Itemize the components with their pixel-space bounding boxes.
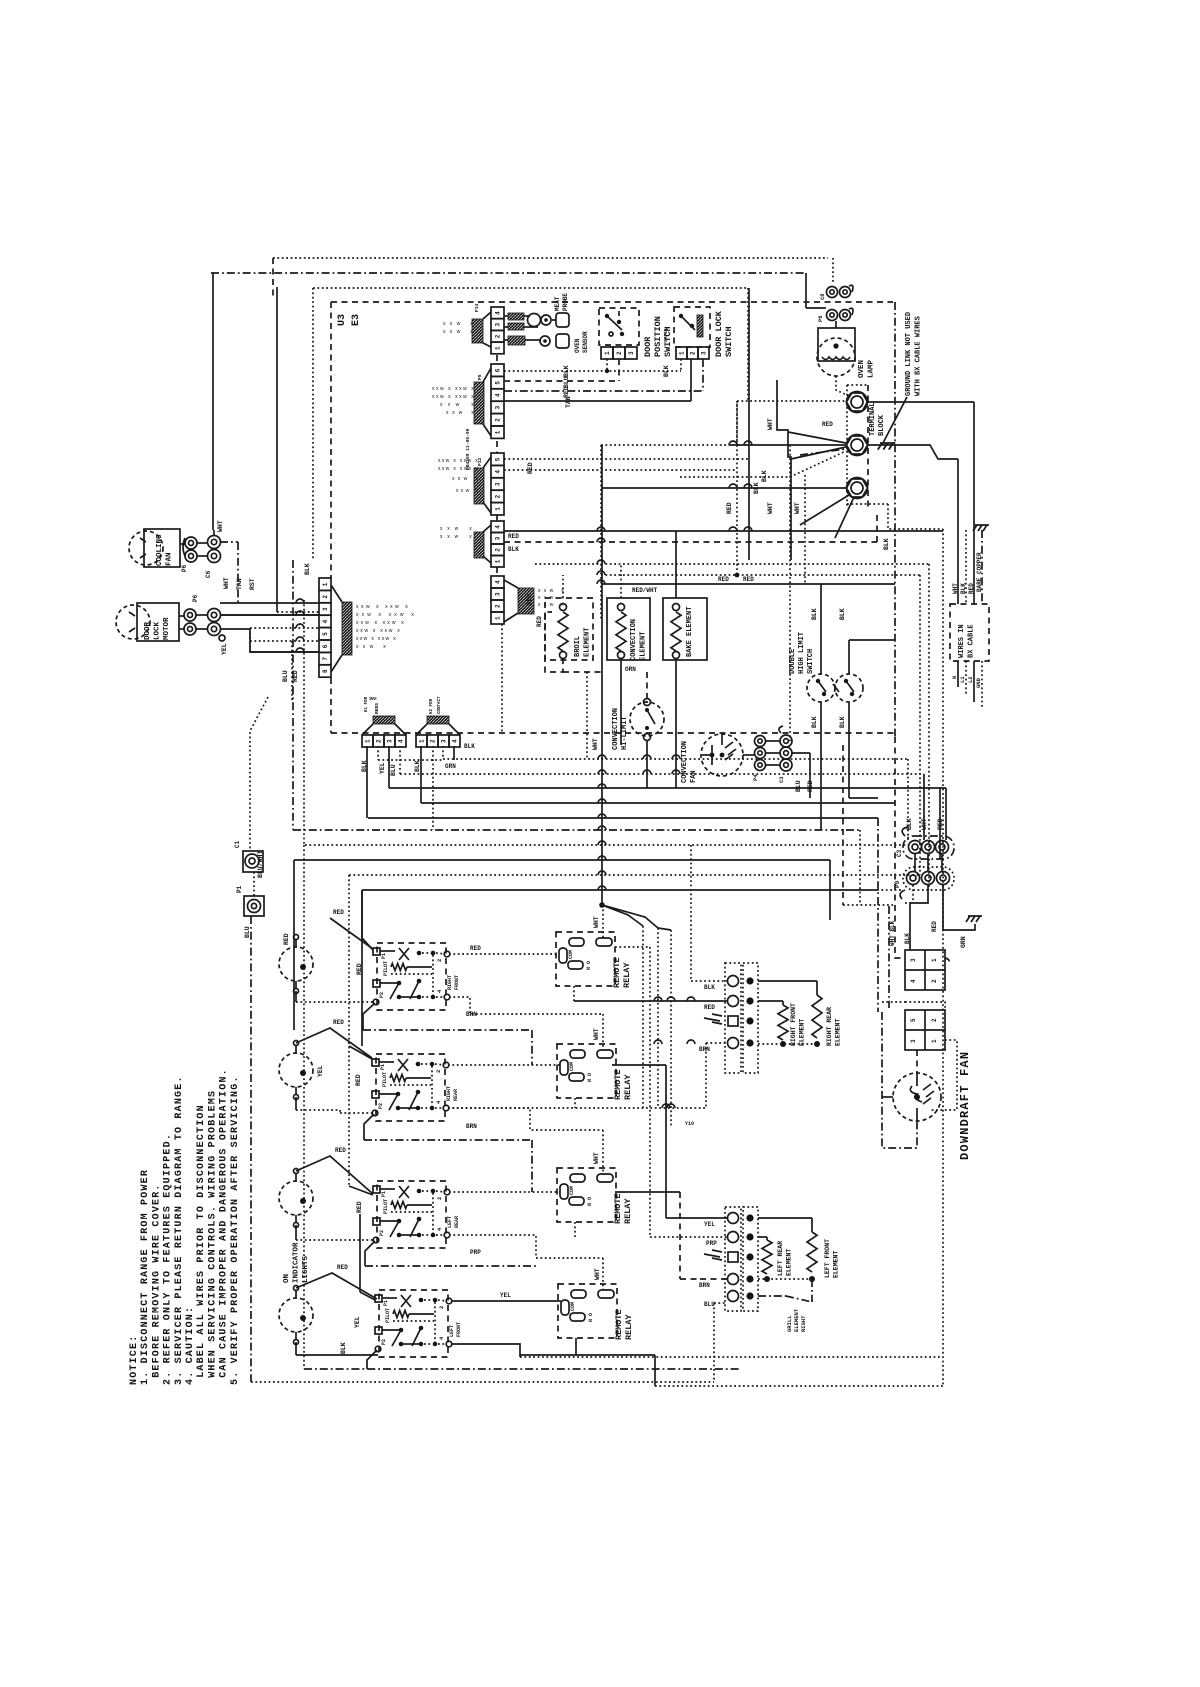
junction RED <box>735 573 740 578</box>
wire bus y860 <box>294 859 830 861</box>
wire GND <box>981 661 983 708</box>
edge stub 4 <box>496 567 498 576</box>
bake element <box>663 598 707 660</box>
wire x304 dotted <box>303 600 305 845</box>
svg-text:2: 2 <box>495 604 502 608</box>
meat probe symbols <box>504 293 569 330</box>
wire relay1 bottom <box>573 986 575 1001</box>
wire screw1 to RED <box>866 401 974 403</box>
svg-text:RED: RED <box>508 533 519 540</box>
ground bare copper <box>973 525 989 531</box>
wire to hi-limit <box>646 672 648 698</box>
wire N <box>957 661 959 687</box>
switch left rear <box>373 1181 450 1248</box>
svg-text:4: 4 <box>322 619 329 623</box>
svg-text:P1: P1 <box>380 1064 386 1070</box>
svg-text:1: 1 <box>495 616 502 620</box>
svg-text:1: 1 <box>495 507 502 511</box>
svg-text:RST: RST <box>249 578 256 590</box>
wire dotted x601 drop <box>600 445 602 620</box>
svg-text:RED: RED <box>726 502 733 514</box>
wire P9-3 to ground <box>943 885 975 930</box>
svg-text:RIGHT: RIGHT <box>446 1086 452 1101</box>
svg-text:3: 3 <box>910 1039 917 1043</box>
svg-text:BLK: BLK <box>960 583 967 594</box>
svg-text:WHT: WHT <box>593 1028 600 1040</box>
svg-text:GROUND LINK NOT USEDWITH BX CA: GROUND LINK NOT USEDWITH BX CABLE WIRES <box>905 312 923 396</box>
remote relay 4 <box>558 1284 617 1338</box>
terminal bar pair left-lower <box>725 1207 758 1311</box>
svg-text:1: 1 <box>495 346 502 350</box>
wire x304 down to rail <box>303 845 305 1369</box>
wire junction to relay1 <box>602 905 604 938</box>
svg-text:RED: RED <box>333 909 344 916</box>
svg-text:BLK: BLK <box>761 470 768 482</box>
connector 4-pin downdraft <box>905 1010 945 1050</box>
svg-text:BLK: BLK <box>811 608 818 620</box>
door position switch pins <box>601 347 613 359</box>
svg-text:RIGHT: RIGHT <box>447 975 453 990</box>
right front element <box>758 1001 806 1047</box>
wire bus y890 <box>362 889 877 891</box>
svg-text:WHT: WHT <box>952 583 959 594</box>
wire x805 dotted <box>804 475 806 584</box>
wire drop to P8 <box>805 273 807 308</box>
svg-text:RED: RED <box>337 1264 348 1271</box>
wire drop x860 <box>859 830 861 905</box>
wire dashdot y1266 <box>365 1265 536 1267</box>
wire conn to fan <box>916 1050 918 1073</box>
edge stub 2 <box>496 441 498 453</box>
svg-text:xxw x xxw x: xxw x xxw x <box>438 466 478 472</box>
svg-text:BLK: BLK <box>753 482 760 494</box>
svg-text:BLK: BLK <box>414 760 421 772</box>
wire bus y830 <box>293 829 860 831</box>
wire bus y575 <box>601 574 920 576</box>
wire relay1 right <box>615 946 650 948</box>
svg-text:LEFT: LEFT <box>447 1216 453 1228</box>
connector strip P8 board <box>474 521 504 567</box>
svg-text:RED: RED <box>527 462 534 474</box>
svg-text:6: 6 <box>495 368 502 372</box>
svg-text:RED: RED <box>333 1019 344 1026</box>
svg-text:RED: RED <box>526 594 533 605</box>
svg-text:1: 1 <box>931 958 938 962</box>
svg-text:WHT: WHT <box>217 520 224 532</box>
wire downdraft right loop <box>931 1040 957 1110</box>
svg-text:BLK: BLK <box>883 538 890 550</box>
svg-text:COM: COM <box>568 950 574 959</box>
wire drop x843 <box>842 745 844 905</box>
inner dotted box <box>313 287 748 289</box>
svg-text:2: 2 <box>376 739 383 743</box>
svg-text:PILOT: PILOT <box>383 961 389 976</box>
wire x643 vertical <box>642 926 644 1108</box>
svg-text:RED: RED <box>536 616 543 627</box>
wire bus y759 <box>443 758 908 760</box>
svg-text:N O: N O <box>588 1313 594 1322</box>
remote relay 3 <box>557 1168 616 1222</box>
wire downdraft loop <box>882 1012 917 1148</box>
wire BLK to high limit 1 <box>820 584 822 674</box>
wire to C1 <box>250 697 268 851</box>
svg-text:DOWNDRAFT FAN: DOWNDRAFT FAN <box>958 1051 972 1160</box>
svg-text:xxw x xxw x: xxw x xxw x <box>356 620 404 626</box>
svg-text:P6: P6 <box>192 594 199 602</box>
wire pin5 dashdot <box>758 1295 786 1297</box>
svg-text:1: 1 <box>365 739 372 743</box>
svg-text:YEL: YEL <box>354 1316 361 1328</box>
svg-text:RED: RED <box>335 1147 346 1154</box>
svg-text:K2 FOR: K2 FOR <box>430 698 434 714</box>
wire screw2 to WHT <box>868 445 958 459</box>
wire x502 dotted <box>501 624 503 733</box>
wire x790 vertical <box>789 445 791 741</box>
svg-text:3: 3 <box>628 351 635 355</box>
svg-text:4: 4 <box>495 393 502 397</box>
connector P6 cooling fan <box>181 537 197 572</box>
wire WHT down to C6 <box>212 273 214 530</box>
wire to ground note <box>883 397 907 443</box>
svg-text:WHT: WHT <box>594 1268 601 1280</box>
svg-text:1: 1 <box>495 559 502 563</box>
svg-text:BLU/WHT: BLU/WHT <box>257 851 264 878</box>
wire drop to P9-1 <box>907 759 909 840</box>
double high limit switch <box>789 632 863 702</box>
svg-text:8: 8 <box>322 669 329 673</box>
wire bus y845 <box>305 844 908 846</box>
wires converging to screw2 <box>737 400 846 402</box>
wire into pin4 <box>706 1042 727 1044</box>
arrows into bar <box>704 1014 722 1024</box>
wire red diag 1 <box>330 918 373 949</box>
wire y1108 long <box>448 1107 706 1109</box>
connector C4 <box>778 726 792 783</box>
svg-text:5: 5 <box>495 457 502 461</box>
terminal block <box>847 385 889 508</box>
svg-text:C6: C6 <box>205 570 212 578</box>
wire into 4pin <box>895 905 905 958</box>
connector C3 <box>896 827 954 859</box>
wire bottoms lower pair <box>758 1278 812 1280</box>
svg-text:Y10: Y10 <box>685 1121 694 1127</box>
wire red diag 3 <box>296 1156 373 1194</box>
svg-text:BRN: BRN <box>466 1011 477 1018</box>
svg-text:6: 6 <box>322 644 329 648</box>
svg-text:P1: P1 <box>381 1191 387 1197</box>
svg-text:OVENLAMP: OVENLAMP <box>858 359 876 378</box>
wire x714 up to BLU pin <box>713 1303 715 1382</box>
remote relay 1 <box>556 932 615 986</box>
wire x691 into pin1 <box>690 845 692 981</box>
wires in bx cable box <box>950 604 989 661</box>
svg-text:4: 4 <box>452 739 459 743</box>
wire dashdot run <box>211 272 806 274</box>
svg-text:RED: RED <box>563 386 570 398</box>
svg-text:P6: P6 <box>181 564 188 572</box>
wire WHT into box <box>957 459 959 604</box>
connector 4-pin upper <box>905 950 945 990</box>
wire rail y1357 dotted <box>520 1356 943 1358</box>
svg-text:2: 2 <box>495 418 502 422</box>
wire vert x277 <box>276 287 278 612</box>
wire bus y803 <box>421 802 895 804</box>
svg-text:C1: C1 <box>234 840 241 848</box>
svg-text:BLK: BLK <box>663 365 670 377</box>
wire x293 dashdot <box>292 560 294 830</box>
convection fan <box>681 734 743 783</box>
wire dashdot y1140 <box>364 1139 532 1141</box>
connector C6 cooling fan <box>205 520 224 578</box>
svg-text:5: 5 <box>910 1018 917 1022</box>
wire dotted y459 <box>504 458 749 460</box>
door lock motor <box>116 603 179 641</box>
svg-text:P1: P1 <box>236 885 243 893</box>
wire x294 down <box>293 944 295 1030</box>
wire BLK into box <box>965 530 967 604</box>
wire RED into box <box>973 402 975 604</box>
svg-text:1: 1 <box>419 739 426 743</box>
svg-text:3: 3 <box>495 482 502 486</box>
svg-text:PRP: PRP <box>706 1240 717 1247</box>
wire bus y788 <box>389 787 946 789</box>
svg-text:LATCH: LATCH <box>663 328 669 342</box>
indicator light 2 <box>279 1041 313 1100</box>
switch right front <box>373 943 450 1010</box>
svg-text:2: 2 <box>435 1070 442 1073</box>
svg-text:BLK: BLK <box>340 1342 347 1354</box>
wire x929 <box>928 564 930 890</box>
svg-text:2: 2 <box>495 494 502 498</box>
connector C1 <box>234 840 264 878</box>
svg-text:CONTACT: CONTACT <box>438 696 442 714</box>
svg-text:BLK: BLK <box>904 933 911 944</box>
svg-text:3: 3 <box>495 323 502 327</box>
svg-text:WHT: WHT <box>593 1152 600 1164</box>
indicator light 4 <box>279 1286 313 1345</box>
svg-text:BLK: BLK <box>304 563 311 575</box>
svg-text:xxw x xxw x: xxw x xxw x <box>432 386 474 392</box>
machine control board dashed box <box>331 301 893 303</box>
wire x889 dashdot down <box>888 906 890 1008</box>
svg-text:L1: L1 <box>959 676 966 683</box>
connector P8 <box>817 308 853 322</box>
svg-text:2: 2 <box>495 548 502 552</box>
svg-text:PILOT: PILOT <box>383 1199 389 1214</box>
wire diag fan a <box>602 905 643 926</box>
svg-text:N O: N O <box>586 961 592 970</box>
svg-text:YEL: YEL <box>379 762 386 774</box>
svg-text:YEL: YEL <box>500 1292 511 1299</box>
wire BLU stub <box>291 641 293 700</box>
wire L1 <box>965 661 967 695</box>
wire bus y564 <box>535 563 929 565</box>
svg-text:3: 3 <box>387 739 394 743</box>
svg-text:RED: RED <box>704 1004 715 1011</box>
svg-text:RED: RED <box>743 576 754 583</box>
svg-text:3: 3 <box>495 592 502 596</box>
svg-text:BLU: BLU <box>390 764 397 776</box>
svg-text:P2: P2 <box>379 992 385 998</box>
downdraft fan motor <box>893 1073 941 1121</box>
svg-text:BLK: BLK <box>839 608 846 620</box>
wires around elements <box>545 612 563 672</box>
wire around box dotted <box>888 504 943 529</box>
wire TAN solid <box>504 400 691 402</box>
wire drop dashdot downdraft <box>877 818 879 1012</box>
wire x895 down <box>894 737 896 905</box>
wire conv top up <box>620 564 622 598</box>
edge stub 1 <box>496 355 498 364</box>
svg-text:3: 3 <box>495 405 502 409</box>
wire C1 to P1 <box>253 872 255 896</box>
svg-text:WHT: WHT <box>593 916 600 928</box>
svg-text:RED: RED <box>931 921 938 932</box>
indicator light 3 <box>279 1169 313 1228</box>
wire sw1 to relay1 COM <box>449 953 559 955</box>
svg-text:4: 4 <box>398 739 405 743</box>
svg-text:BAKE ELEMENT: BAKE ELEMENT <box>686 607 694 657</box>
wire x920 <box>919 575 921 875</box>
wire hi-limit down ext <box>646 740 648 788</box>
svg-text:P14: P14 <box>474 303 480 312</box>
wire P8 to lamp <box>835 321 837 328</box>
svg-text:WHT: WHT <box>921 818 928 830</box>
svg-text:RED: RED <box>356 1201 363 1213</box>
convection element <box>607 598 650 661</box>
vertical hop wire x602 <box>601 445 603 903</box>
wire bus y531 <box>504 530 943 532</box>
wire sw3-4 to relay4 <box>449 1235 603 1258</box>
wire relay2 bottom <box>574 1098 576 1108</box>
svg-text:P1: P1 <box>383 1300 389 1306</box>
door position switch <box>599 308 639 345</box>
wire loop top <box>905 1002 945 1010</box>
terminal bar pair right-upper <box>725 963 758 1073</box>
connector strip P4 bottom <box>416 716 460 747</box>
svg-text:BLU: BLU <box>795 780 802 792</box>
ground GRN <box>966 916 982 922</box>
svg-text:2: 2 <box>322 595 329 599</box>
wire y890 dotted end <box>877 889 903 891</box>
wire x658 vertical <box>657 928 659 1108</box>
wire WHT staircase <box>777 380 791 530</box>
wire ind3 out <box>296 1239 374 1241</box>
wire drop to C3-3 <box>945 788 947 840</box>
svg-text:WHT: WHT <box>592 738 599 750</box>
svg-text:BLK: BLK <box>508 546 519 553</box>
wire sw2 to relay2 COM <box>448 1064 560 1066</box>
wire sw2-4 to relay3 <box>448 1108 603 1130</box>
connector strip P2 board <box>491 576 534 624</box>
svg-text:2: 2 <box>438 1306 445 1309</box>
svg-text:4: 4 <box>910 979 917 983</box>
svg-text:K1 FOR: K1 FOR <box>365 696 369 712</box>
svg-text:N O: N O <box>587 1073 593 1082</box>
connector P1 <box>236 885 264 938</box>
wire x671 vertical <box>670 930 672 1128</box>
svg-text:3: 3 <box>495 536 502 540</box>
wire y1001 into pin2 <box>574 1000 727 1002</box>
svg-text:4: 4 <box>495 311 502 315</box>
svg-text:5: 5 <box>495 381 502 385</box>
svg-text:REAR: REAR <box>453 1089 459 1101</box>
wire bus y774 <box>400 773 924 775</box>
wire bus y818 <box>368 817 878 819</box>
svg-text:xxw x xxw x: xxw x xxw x <box>356 628 400 634</box>
svg-text:2: 2 <box>616 351 623 355</box>
svg-text:2: 2 <box>931 1018 938 1022</box>
svg-text:2: 2 <box>430 739 437 743</box>
svg-text:xxw x xxw x: xxw x xxw x <box>356 604 408 610</box>
svg-text:5: 5 <box>322 632 329 636</box>
svg-text:P1: P1 <box>381 953 387 959</box>
svg-text:BRN: BRN <box>466 1123 477 1130</box>
svg-text:BRN: BRN <box>699 1282 710 1289</box>
wire x666 <box>665 1065 667 1218</box>
wire P1 down long <box>250 916 252 1382</box>
remote relay 2 <box>557 1044 616 1098</box>
wire x943 long vertical <box>942 529 944 1386</box>
svg-text:N: N <box>951 676 958 679</box>
wire broil top up <box>562 575 564 598</box>
svg-text:RED: RED <box>968 583 975 594</box>
wire RED dashdot <box>504 390 703 392</box>
wire corner stub <box>272 258 274 300</box>
svg-text:BLK: BLK <box>464 743 475 750</box>
svg-text:YEL: YEL <box>317 1065 324 1077</box>
wire relay3 right <box>615 1191 680 1193</box>
svg-text:P8: P8 <box>817 315 824 322</box>
svg-text:C3: C3 <box>778 776 785 783</box>
wire convection elem down <box>620 658 622 745</box>
svg-text:P2: P2 <box>379 1230 385 1236</box>
svg-text:7: 7 <box>322 657 329 661</box>
connector P6 door lock <box>184 594 199 635</box>
svg-text:C3: C3 <box>896 849 903 857</box>
wire x940 <box>939 788 941 860</box>
wire drop x830 <box>829 860 831 920</box>
switch left front <box>375 1290 452 1357</box>
wire BLK to high limit 2 <box>848 640 850 674</box>
svg-text:RED: RED <box>718 576 729 583</box>
wire door lock to P7 <box>220 614 319 616</box>
wire sw1 pin diag <box>363 1003 375 1030</box>
connector P9 <box>894 867 954 899</box>
right rear element <box>758 981 842 1047</box>
wire sw4-4 out <box>451 1344 520 1357</box>
svg-text:2: 2 <box>436 959 443 962</box>
svg-text:BLU: BLU <box>282 670 289 682</box>
wire x737 vertical <box>736 401 738 575</box>
wire x749 vertical <box>748 288 750 560</box>
svg-text:BRN: BRN <box>699 1046 710 1053</box>
svg-text:P5: P5 <box>477 374 483 380</box>
broil element <box>545 598 593 660</box>
door lock switch pins <box>676 347 687 359</box>
svg-text:N O: N O <box>587 1197 593 1206</box>
connector strip P12 <box>474 453 504 515</box>
wire bus y875 <box>349 874 920 876</box>
wire x294 solid <box>293 860 295 944</box>
wire x433 vertical <box>432 746 434 830</box>
wire element bottoms <box>758 1043 817 1045</box>
wire drop to C3-2 <box>923 774 925 840</box>
svg-text:1: 1 <box>495 430 502 434</box>
wire relay3 bottom <box>574 1222 576 1237</box>
wire bake elem down <box>675 658 677 788</box>
svg-text:3: 3 <box>322 607 329 611</box>
